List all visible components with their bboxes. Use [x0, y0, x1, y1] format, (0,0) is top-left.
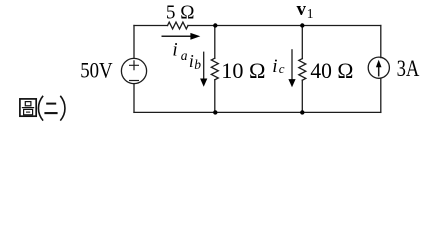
- current arrow i_a: [162, 33, 201, 40]
- node dot top at 10 ohm branch: [213, 23, 217, 27]
- svg-text:i: i: [189, 51, 194, 71]
- current source arrow (up): [376, 60, 382, 77]
- svg-text:1: 1: [307, 6, 314, 21]
- paren ): [60, 96, 65, 121]
- svg-text:b: b: [194, 57, 201, 72]
- label figure caption 圖(二): [20, 96, 65, 121]
- svg-text:5 Ω: 5 Ω: [166, 1, 195, 23]
- CJK 二: [46, 103, 56, 105]
- svg-text:v: v: [297, 0, 307, 20]
- resistor 5 ohm (zigzag): [168, 22, 189, 29]
- node dot bottom at 40 ohm branch: [300, 110, 304, 114]
- paren (: [38, 96, 43, 121]
- svg-text:10 Ω: 10 Ω: [221, 58, 265, 83]
- svg-text:c: c: [279, 61, 285, 76]
- svg-text:i: i: [272, 56, 277, 77]
- current arrow i_b: [200, 52, 207, 87]
- wire left vertical lower: [133, 84, 135, 113]
- CJK 圖 drawn as paths: [20, 99, 36, 116]
- plus sign inside source: [130, 61, 139, 70]
- svg-text:50V: 50V: [80, 58, 112, 83]
- svg-text:a: a: [181, 48, 188, 63]
- wire top-right horizontal: [188, 25, 381, 27]
- current arrow i_c: [288, 49, 295, 87]
- current source circle (3A): [368, 57, 389, 78]
- svg-text:i: i: [172, 40, 177, 61]
- resistor 10 ohm (vertical zigzag): [211, 58, 218, 80]
- svg-text:3A: 3A: [397, 56, 420, 81]
- node v1 dot top at 40 ohm branch: [300, 23, 304, 27]
- svg-text:40 Ω: 40 Ω: [310, 58, 353, 83]
- wire top-left horizontal: [134, 25, 168, 27]
- resistor 40 ohm (vertical zigzag): [299, 59, 306, 81]
- wire right vertical upper: [380, 26, 382, 58]
- wire right vertical lower: [380, 78, 382, 112]
- minus sign inside source: [130, 80, 139, 82]
- wire 10 ohm branch upper: [214, 26, 216, 59]
- voltage source V1 circle (50V): [121, 58, 146, 83]
- wire 10 ohm branch lower: [214, 80, 216, 113]
- node dot bottom at 10 ohm branch: [213, 110, 217, 114]
- wire 40 ohm branch lower: [301, 80, 303, 112]
- wire bottom horizontal: [134, 111, 381, 113]
- wire 40 ohm branch upper: [301, 26, 303, 59]
- wire left vertical upper: [133, 26, 135, 59]
